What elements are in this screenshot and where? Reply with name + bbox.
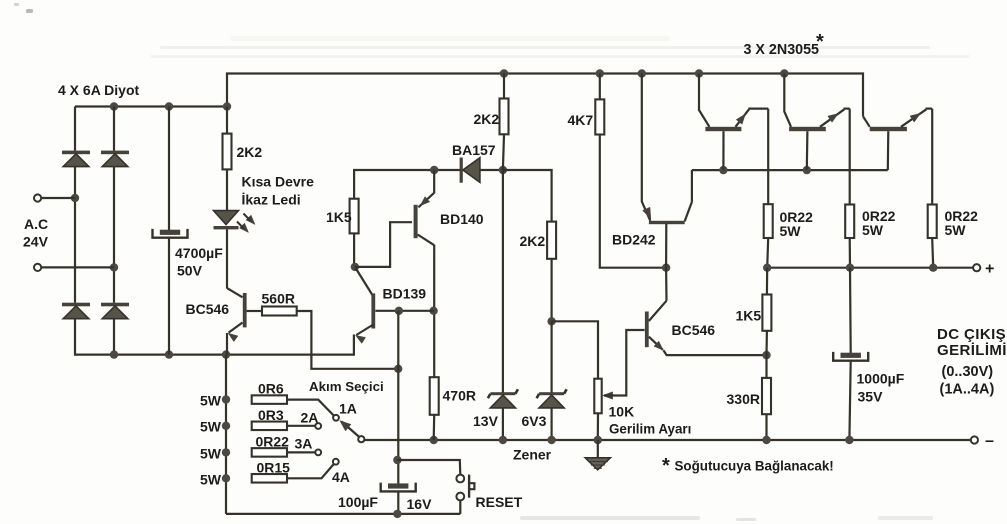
node: - rail at D4 column: [110, 350, 118, 358]
zener diode Z2 6V3: [539, 392, 564, 395]
transistor Q6 BD139 (NPN driver): [356, 268, 374, 297]
svg-text:+: +: [985, 261, 994, 278]
svg-text:2A: 2A: [301, 410, 319, 426]
terminal: + output: [973, 264, 980, 271]
wire: 13V zener column: [502, 170, 504, 393]
wire: BD139 base line to BD140 collector column: [375, 310, 433, 312]
svg-text:*: *: [662, 455, 670, 477]
svg-text:A.C: A.C: [24, 216, 48, 232]
node: 0V rail / C2: [845, 436, 853, 444]
svg-text:4A: 4A: [332, 469, 350, 485]
resistor 0R22 5W #1: [764, 204, 773, 238]
svg-text:(0..30V): (0..30V): [942, 364, 994, 380]
wire: BD242 collector up to 2N3055 base rail: [691, 170, 693, 202]
svg-text:4700µF: 4700µF: [175, 245, 223, 261]
resistor 4K7: [595, 99, 604, 134]
wire: 1000uF from + rail: [849, 268, 852, 354]
svg-text:(1A..4A): (1A..4A): [940, 382, 995, 398]
svg-text:*: *: [816, 31, 824, 53]
node: - rail at reservoir cap column: [165, 350, 173, 358]
wire: divider node to 330R: [765, 355, 767, 378]
node: bridge rail at reservoir cap column: [165, 102, 173, 110]
svg-text:330R: 330R: [727, 391, 760, 407]
wire: 0R15 to 4A contact: [287, 464, 334, 478]
wire: 0R22#3 to + rail: [932, 238, 933, 268]
wire: 2K2-right to 6V3 node: [550, 259, 552, 322]
svg-text:3 X 2N3055: 3 X 2N3055: [744, 42, 820, 58]
node: bottom rail at C3: [393, 510, 401, 518]
svg-text:5W: 5W: [200, 393, 222, 409]
node: base rail at Q1: [719, 166, 727, 174]
resistor 0R6 5W: [222, 395, 230, 403]
svg-text:1K5: 1K5: [326, 209, 352, 225]
svg-text:5W: 5W: [200, 446, 222, 462]
wire: D3 anode to - rail: [74, 318, 76, 356]
wire: 0R22#1 to + rail: [767, 238, 768, 268]
svg-text:GERİLİMİ: GERİLİMİ: [937, 342, 1007, 359]
svg-text:0R15: 0R15: [257, 460, 291, 476]
svg-text:0R22: 0R22: [256, 434, 290, 450]
svg-text:Kısa Devre: Kısa Devre: [242, 174, 315, 190]
transistor Q5 BD140 (PNP driver): [433, 170, 435, 193]
svg-text:3A: 3A: [295, 436, 313, 452]
resistor 560R: [262, 307, 297, 316]
svg-text:5W: 5W: [945, 222, 967, 238]
terminal: - output: [971, 436, 978, 443]
svg-text:Zener: Zener: [513, 447, 552, 463]
resistor 2K2 (middle, zener feed): [500, 99, 509, 135]
wire: Z2 anode to 0V rail: [550, 408, 552, 440]
node: BD139 collector / 1K5 / BD140 base: [351, 263, 359, 271]
node: divider midpoint 1K5/330R: [762, 351, 770, 359]
node: 560R joins BD139-base/cap column: [394, 365, 402, 373]
wire: reservoir cap column from bridge + rail: [168, 107, 170, 231]
node: top rail junction at BD242 emitter: [638, 69, 646, 77]
diode D4 (6A) bottom-middle of bridge: [101, 303, 129, 307]
wire: Q2 emitter down to 0R22#2 (crosses base rail): [849, 109, 851, 205]
terminal: A.C input bottom: [34, 264, 41, 271]
node: top rail junction at Q2 2N3055 collector: [780, 69, 788, 77]
wire: BA157 anode to 2K2-mid column: [480, 169, 503, 171]
wire: Q3 base to base rail end: [887, 131, 890, 170]
terminal: selector contact 1A: [333, 415, 339, 421]
zener diode Z1 13V: [490, 392, 515, 395]
node: BD139 base line meets BD140 collector column: [429, 307, 437, 315]
wire: 0R22 to 3A contact: [287, 451, 315, 453]
transistor Q8 BC546 (right, error amp): [649, 301, 667, 321]
svg-text:50V: 50V: [177, 263, 203, 279]
wire: bridge - rail y354.6: [75, 354, 354, 356]
wire: 6V3 column to zener: [550, 321, 552, 392]
svg-text:16V: 16V: [407, 496, 433, 512]
node: 0V rail / pot + ground: [594, 436, 602, 444]
wire: top +raw rail y73.5 from 2K2-left col to Q3 corner: [227, 74, 863, 117]
wire: y170 to 2K2-right column: [503, 170, 552, 222]
node: 0V rail / 330R: [762, 436, 770, 444]
node: BD242 base / 4K7 / BC546 collector: [662, 264, 670, 272]
resistor 2K2 (left, LED feed): [223, 134, 232, 170]
wire: y170 line from 1K5 top to BA157: [354, 170, 460, 199]
switch arm: common wiper to 1A: [342, 422, 360, 438]
svg-text:RESET: RESET: [476, 494, 523, 510]
node: top rail junction above 4K7: [596, 69, 604, 77]
svg-text:4 X 6A Diyot: 4 X 6A Diyot: [58, 82, 140, 98]
wire: bridge mid column x114: [113, 107, 115, 151]
wire: base column down (crosses switch line) to reset branch: [397, 311, 399, 484]
svg-text:4K7: 4K7: [568, 112, 594, 128]
wire: LED cathode down to BC546 collector: [226, 229, 228, 288]
node: AC input top joins bridge left column: [71, 194, 79, 202]
wire: Q3 emitter down to 0R22#3: [931, 109, 933, 205]
resistor 0R15 5W: [222, 474, 230, 482]
diode D2 (6A) top-middle of bridge: [101, 151, 129, 155]
svg-text:0R3: 0R3: [258, 407, 284, 423]
ground symbol: [597, 440, 599, 458]
svg-text:5W: 5W: [862, 222, 884, 238]
svg-text:10K: 10K: [609, 404, 635, 420]
wire: Q8 collector up to BD242 base node: [665, 268, 668, 301]
wire: Q2 base to base rail: [806, 131, 809, 170]
wire: BD140 collector down to 470R: [433, 245, 435, 378]
svg-text:Soğutucuya Bağlanacak!: Soğutucuya Bağlanacak!: [675, 459, 834, 474]
node: junction 2K2-mid / BA157 / 13V zener column: [499, 166, 507, 174]
capacitor C3 100uF 16V: [388, 483, 408, 488]
svg-text:2K2: 2K2: [237, 144, 263, 160]
LED D5 short-circuit indicator: [214, 211, 239, 225]
wire: Z1 anode to 0V rail: [502, 408, 504, 440]
pushbutton RESET: [456, 475, 464, 483]
svg-text:–: –: [985, 433, 994, 450]
resistor 0R22 5W #3: [928, 205, 937, 239]
svg-text:BC546: BC546: [186, 301, 230, 317]
wire: AC bottom terminal to bridge (crosses left column): [42, 266, 115, 268]
node: + rail / 0R22#3: [929, 264, 937, 272]
wire: top rail to 4K7: [599, 74, 601, 100]
node: bridge rail at D2 column: [110, 102, 118, 110]
svg-text:5W: 5W: [200, 419, 222, 435]
transistor Q1 2N3055: [699, 74, 709, 127]
svg-text:6V3: 6V3: [522, 413, 547, 429]
wire: 470R bottom to 0V rail: [433, 415, 436, 440]
wire: Q8 emitter right to 1K5/330R divider: [664, 350, 767, 355]
svg-text:BD139: BD139: [383, 286, 427, 302]
wire: bridge + rail y106.5: [75, 105, 227, 107]
svg-text:BD242: BD242: [612, 232, 656, 248]
wire: BD242 base-bar center down to node: [665, 224, 667, 268]
svg-text:DC ÇIKIŞ: DC ÇIKIŞ: [937, 326, 1006, 343]
svg-text:1K5: 1K5: [736, 308, 762, 324]
wire: 560R right to current-set node (down and right): [297, 311, 399, 369]
node: top rail junction at Q1 2N3055 collector: [695, 69, 703, 77]
svg-text:BC546: BC546: [672, 322, 716, 338]
svg-text:1000µF: 1000µF: [857, 371, 905, 387]
svg-text:BD140: BD140: [440, 211, 484, 227]
node: 6V3 zener / pot-top junction: [547, 317, 555, 325]
wire: 1K5 bottom to BD139 collector node: [353, 233, 355, 267]
svg-text:BA157: BA157: [452, 142, 496, 158]
svg-text:24V: 24V: [23, 234, 49, 250]
wire: 0R3 to 2A contact: [287, 425, 315, 427]
resistor 0R22 5W #2: [845, 205, 854, 239]
wire: 2K2 to LED anode: [226, 169, 228, 211]
svg-text:13V: 13V: [473, 413, 499, 429]
wire: pot wiper to BC546 base: [604, 330, 645, 396]
transistor Q3 2N3055: [863, 116, 870, 127]
node: + rail / 1K5 top: [763, 264, 771, 272]
transistor Q2 2N3055: [784, 74, 791, 127]
svg-text:35V: 35V: [858, 389, 884, 405]
svg-text:2K2: 2K2: [520, 233, 546, 249]
svg-text:Akım Seçici: Akım Seçici: [309, 379, 384, 394]
node: AC input bottom joins bridge mid column: [110, 263, 118, 271]
wire: 0V output rail y440: [364, 439, 971, 441]
wire: pot bottom to 0V rail: [597, 413, 599, 440]
resistor 0R3 5W: [222, 422, 230, 430]
capacitor C1 4700uF 50V reservoir: [160, 230, 180, 235]
transistor Q7 BD242 (PNP): [641, 74, 643, 203]
wire: from top rail down to 2K2-left: [226, 107, 228, 135]
resistor 1K5 (right, divider top): [762, 295, 771, 331]
terminal: A.C input top: [34, 194, 41, 201]
resistor 330R (divider bottom): [762, 378, 771, 414]
capacitor C2 1000uF 35V output: [841, 353, 861, 358]
wire: BC546 emitter column down the 5W bank x226: [225, 355, 227, 514]
diode D3 (6A) bottom-left of bridge: [62, 303, 90, 307]
terminal: selector contact 2A: [315, 423, 321, 429]
wire: 330R to 0V rail: [765, 414, 767, 440]
wire: Q4 base to 560R: [247, 310, 262, 312]
LED light arrows: [246, 215, 255, 224]
node: reset branch from cap column: [393, 456, 401, 464]
node: 0V rail / 470R: [430, 436, 438, 444]
wire: C3 negative to bottom rail: [397, 492, 399, 514]
node: + rail / 1000uF top: [846, 264, 854, 272]
wire: D1 anode down to AC node: [74, 167, 76, 303]
node: 0V rail / Z1: [499, 436, 507, 444]
svg-text:100µF: 100µF: [338, 494, 378, 510]
wire: pot top feed from 6V3 node: [552, 321, 598, 379]
node: base rail at Q2: [803, 166, 811, 174]
potentiometer 10K Gerilim Ayari: [594, 379, 601, 414]
wire: branch to RESET top: [397, 460, 460, 474]
terminal: selector common: [358, 436, 364, 442]
node: 0V rail / Z2: [547, 436, 555, 444]
svg-text:1A: 1A: [339, 401, 357, 417]
resistor 470R: [430, 377, 439, 415]
wire: node to BD140 base (right, up, right): [355, 222, 412, 267]
wire: BD139 emitter down to - rail: [353, 335, 355, 356]
svg-text:470R: 470R: [443, 388, 476, 404]
terminal: selector contact 3A: [315, 450, 321, 456]
diode D6 BA157: [460, 158, 463, 183]
wire: AC top terminal to bridge: [42, 197, 76, 199]
wire: + output rail y267.7: [767, 267, 973, 269]
wire: 2N3055 base rail y170: [692, 169, 888, 171]
svg-text:Gerilim Ayarı: Gerilim Ayarı: [609, 422, 691, 437]
wire: 0R6 to 1A contact: [287, 400, 334, 416]
resistor 1K5 (left): [350, 199, 359, 234]
node: bridge rail joins 2K2-left column: [223, 102, 231, 110]
wire: Q4 emitter to - rail: [226, 333, 228, 355]
wire: 1K5-right from + rail: [766, 268, 768, 295]
wire: RESET bottom to bottom rail: [459, 500, 461, 514]
node: top rail junction above 2K2-mid: [500, 69, 508, 77]
diode D1 (6A) top-left of bridge: [62, 151, 90, 155]
wire: Q1 emitter down to 0R22#1 (crosses base rail): [767, 109, 769, 205]
wire: 0R22#2 to + rail: [849, 238, 851, 268]
node: - rail at BC546 emitter column: [222, 350, 230, 358]
svg-text:5W: 5W: [200, 472, 222, 488]
wire: C1 negative to - rail: [168, 238, 170, 355]
wire: Q1 base to base rail: [722, 131, 724, 170]
resistor 0R22 5W (selector): [222, 448, 230, 456]
wire: top rail to 2K2-mid: [503, 74, 505, 99]
svg-text:0R6: 0R6: [258, 381, 284, 397]
wire: D2 anode down to AC node 2: [113, 167, 115, 303]
svg-text:560R: 560R: [262, 291, 295, 307]
wire: 1K5 to divider node: [765, 331, 768, 355]
svg-text:2K2: 2K2: [474, 111, 500, 127]
resistor 2K2 (right, above 6V3): [547, 222, 556, 259]
node: BD139 base joins cap/reset column: [395, 307, 403, 315]
wire: bottom return rail y513.9: [226, 513, 460, 515]
terminal: selector contact 4A: [333, 459, 339, 465]
wire: D4 anode to - rail: [113, 318, 115, 356]
wire: bridge left column x75: [74, 107, 76, 151]
wire: 2K2-mid to BA157 node: [503, 134, 504, 170]
node: junction BA157 cathode / BD140 emitter / 1K5: [430, 166, 438, 174]
svg-text:İkaz Ledi: İkaz Ledi: [242, 192, 301, 208]
transistor Q4 BC546 (crowbar): [227, 288, 243, 297]
wire: C2 negative to 0V rail: [849, 361, 850, 440]
svg-text:5W: 5W: [780, 223, 802, 239]
wire: 4K7 down and right to BD242 base node: [600, 135, 666, 268]
